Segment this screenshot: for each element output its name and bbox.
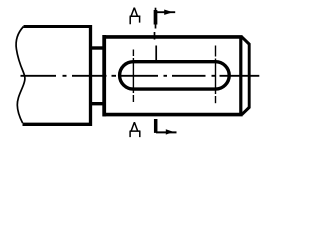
label letter A (bottom) [130,122,141,137]
shaft large-diameter section: bottom edge [23,123,93,126]
horizontal centerline (dash-dot) [21,75,260,77]
vertical centerline of keyway right arc [215,46,217,104]
keyway slot (stadium outline) [120,62,230,89]
view direction arrow line, bottom [156,131,177,133]
wire: break line (wavy left edge of shaft) [16,27,25,124]
cutting line thin continuation below top stroke [155,25,157,29]
relief groove: bottom line [89,102,105,105]
chamfer diagonal, bottom right corner [242,107,250,115]
shaft right end face edge [248,44,251,109]
section cutting line A-A: bottom thick stroke [154,119,158,133]
cutting line thin continuation above top stroke [155,8,157,10]
shaft small-diameter section: left edge [102,35,106,116]
chamfer diagonal, top right corner [242,37,250,45]
view direction arrow line, top [156,11,175,13]
vertical centerline of keyway left arc [132,50,134,103]
label letter A (top) [130,8,141,25]
shaft large-diameter section: top edge [24,25,93,28]
shaft small-diameter section: top edge [103,35,243,39]
chamfer edge line (vertical) at right end [239,38,242,115]
section cutting line A-A: top thick stroke [154,10,158,25]
shaft shoulder face (right edge of large section) [89,25,92,126]
view direction arrowhead, top [164,10,173,15]
shaft small-diameter section: bottom edge [103,113,243,117]
relief groove: top line [89,46,105,49]
cutting line dash through keyway area [155,46,157,64]
view direction arrowhead, bottom [166,129,174,134]
cutting line dash crossing top outline [154,32,156,40]
